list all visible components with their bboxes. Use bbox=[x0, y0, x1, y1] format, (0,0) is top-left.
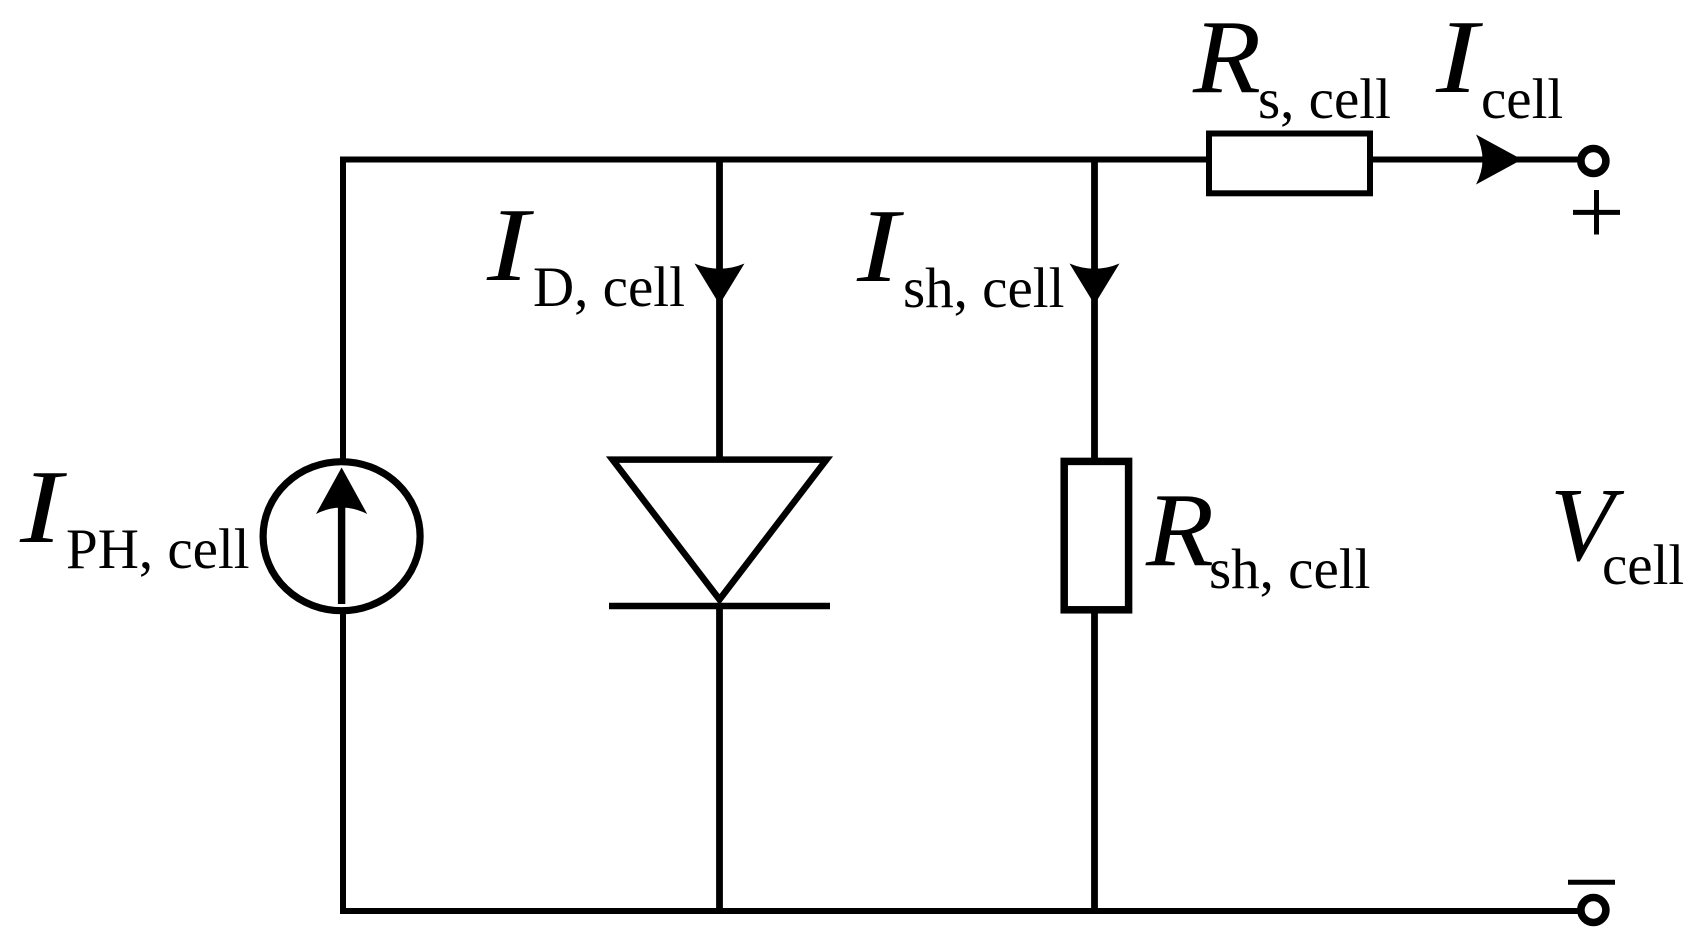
wire diode branch bottom bbox=[716, 604, 723, 914]
svg-text:cell: cell bbox=[1602, 534, 1684, 597]
wire left branch top bbox=[340, 157, 346, 463]
svg-text:sh, cell: sh, cell bbox=[903, 257, 1064, 320]
svg-text:I: I bbox=[856, 187, 905, 304]
minus sign bbox=[1568, 880, 1615, 885]
wire from Rs,cell to output terminal bbox=[1373, 157, 1581, 163]
resistor Rsh,cell body bbox=[1064, 461, 1128, 609]
svg-text:s, cell: s, cell bbox=[1258, 68, 1391, 131]
terminal bottom (-) circle bbox=[1581, 898, 1606, 923]
plus sign bbox=[1573, 190, 1620, 235]
wire left branch bottom bbox=[340, 611, 346, 914]
svg-text:sh, cell: sh, cell bbox=[1209, 538, 1370, 601]
wire shunt branch bottom bbox=[1091, 609, 1098, 914]
arrowhead Ish,cell (down) bbox=[1070, 264, 1120, 305]
svg-text:I: I bbox=[486, 186, 535, 303]
diode triangle bbox=[613, 460, 827, 600]
svg-text:R: R bbox=[1145, 471, 1214, 588]
svg-text:D, cell: D, cell bbox=[533, 256, 685, 319]
wire top bus from left branch to Rs,cell bbox=[340, 157, 1206, 163]
current source arrow shaft bbox=[338, 478, 345, 604]
wire bottom bus bbox=[340, 908, 1579, 914]
svg-text:cell: cell bbox=[1481, 68, 1563, 131]
arrowhead Icell (right) bbox=[1476, 135, 1522, 185]
terminal top (+) circle bbox=[1581, 149, 1606, 174]
wire shunt branch top bbox=[1091, 157, 1098, 462]
arrowhead ID,cell (down) bbox=[695, 264, 745, 305]
current source IPH,cell circle bbox=[263, 462, 420, 611]
diode cathode bar bbox=[609, 603, 830, 610]
svg-text:I: I bbox=[19, 448, 68, 565]
svg-text:PH, cell: PH, cell bbox=[66, 518, 250, 581]
wire diode branch top bbox=[716, 157, 723, 463]
resistor Rs,cell body bbox=[1209, 134, 1370, 194]
svg-text:I: I bbox=[1435, 0, 1484, 115]
svg-text:R: R bbox=[1192, 0, 1261, 115]
current source arrow head bbox=[316, 468, 367, 515]
